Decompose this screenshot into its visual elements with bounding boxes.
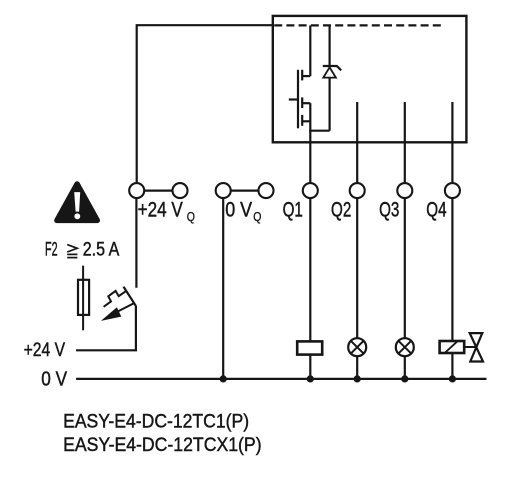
svg-text:+24 V: +24 V — [138, 198, 183, 221]
svg-text:Q: Q — [187, 209, 195, 224]
svg-text:EASY-E4-DC-12TC1(P): EASY-E4-DC-12TC1(P) — [63, 410, 249, 432]
svg-text:F2: F2 — [45, 239, 58, 260]
svg-text:Q4: Q4 — [426, 198, 446, 221]
svg-text:Q1: Q1 — [283, 198, 303, 221]
svg-text:EASY-E4-DC-12TCX1(P): EASY-E4-DC-12TCX1(P) — [63, 434, 262, 456]
svg-text:0 V: 0 V — [41, 368, 67, 390]
svg-text:2.5 A: 2.5 A — [83, 239, 120, 260]
svg-text:Q3: Q3 — [379, 198, 399, 221]
svg-text:+24 V: +24 V — [24, 339, 66, 361]
svg-text:0 V: 0 V — [225, 198, 252, 221]
svg-text:Q: Q — [253, 209, 261, 224]
svg-text:Q2: Q2 — [331, 198, 351, 221]
